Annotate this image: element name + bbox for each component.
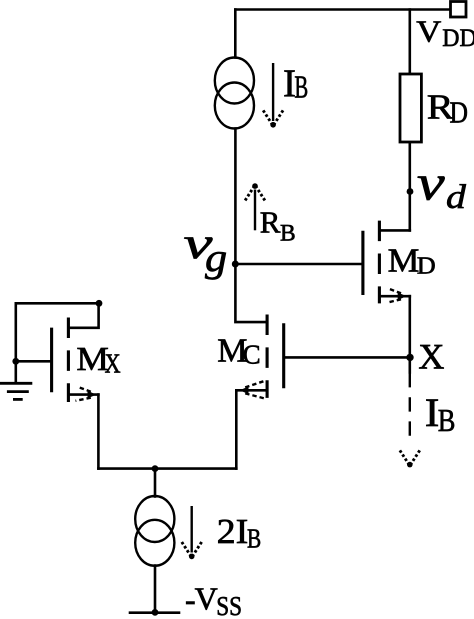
svg-text:R: R (260, 204, 281, 239)
svg-text:V: V (195, 581, 218, 617)
svg-text:C: C (243, 340, 261, 370)
svg-text:V: V (416, 15, 441, 49)
wire 2IB source bottom to -VSS bar (154, 566, 157, 613)
node MX drain-gate junction dot (96, 300, 103, 307)
node tail junction dot (152, 465, 159, 472)
node -VSS junction dot (152, 609, 159, 616)
svg-text:B: B (280, 220, 296, 246)
arrow IB dashed at node X (down) (399, 373, 420, 467)
wire MD drain tap (379, 229, 409, 232)
svg-text:DD: DD (442, 25, 474, 53)
svg-text:B: B (438, 404, 456, 439)
wire -VSS terminal bar (130, 611, 179, 614)
transistor MX channel (dashed) (67, 318, 70, 403)
wire rail branch down to RD top (408, 10, 411, 75)
transistor MC channel (dashed) (266, 315, 269, 398)
resistor RD box (400, 74, 421, 142)
wire tail rail (98, 467, 236, 470)
svg-text:X: X (105, 350, 121, 380)
svg-text:B: B (247, 524, 261, 554)
wire MC gate lead to node X (285, 356, 410, 359)
svg-text:d: d (446, 179, 466, 217)
svg-text:M: M (388, 241, 420, 279)
wire MD source down to node X (408, 296, 411, 372)
svg-text:B: B (294, 69, 308, 104)
MX source arrow (76, 387, 97, 401)
current source 2I_B (bottom) (135, 496, 174, 566)
wire MX diode top wire (16, 302, 99, 305)
wire tail junction down to 2IB source (154, 469, 157, 497)
wire top rail VDD (235, 8, 450, 11)
wire current source bottom through node vg to MC drain tap (235, 129, 267, 323)
transistor MD channel (dashed) (378, 221, 381, 304)
wire MC source down to tail rail (235, 390, 238, 468)
wire MX source down to tail rail (97, 395, 100, 469)
current source I_B (top) (215, 58, 254, 129)
arrow IB top (down) (263, 63, 284, 128)
wire MX drain tap up to diode top wire (68, 303, 98, 328)
transistor MC gate bar (282, 323, 285, 388)
arrow 2IB (down) (181, 506, 202, 559)
svg-text:2I: 2I (217, 511, 249, 550)
arrow RB (up) (245, 183, 265, 230)
svg-text:X: X (418, 337, 444, 377)
node X dot (406, 354, 413, 361)
wire MC source tap (236, 389, 267, 392)
transistor MX gate bar (50, 328, 53, 393)
transistor MD gate bar (361, 231, 364, 295)
node vd dot (407, 188, 414, 195)
svg-text:SS: SS (216, 592, 242, 619)
wire MX left drop to ground (15, 303, 18, 383)
MD source arrow (388, 289, 407, 303)
ground symbol (0, 383, 32, 399)
wire rail down to current source IB top (234, 10, 237, 58)
MC source arrow (240, 381, 266, 399)
node MX gate-ground junction dot (12, 358, 19, 365)
wire RD bottom through node vd to MD drain corner (408, 142, 411, 230)
svg-text:D: D (450, 96, 469, 130)
wire node vg to MD gate (235, 263, 361, 266)
svg-text:D: D (417, 252, 436, 279)
svg-text:v: v (417, 156, 446, 211)
node vg dot (232, 261, 239, 268)
svg-text:g: g (205, 236, 227, 280)
wire MX source tap (68, 393, 98, 396)
wire MD source tap (379, 295, 409, 298)
VDD terminal square (451, 2, 467, 18)
wire MX gate lead (16, 360, 50, 363)
